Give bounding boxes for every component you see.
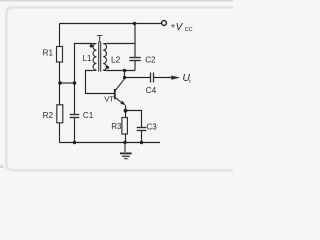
- wire: C1 to bottom rail: [74, 118, 76, 143]
- svg-text:L1: L1: [83, 54, 92, 63]
- wire: R3 to bottom rail: [125, 134, 127, 143]
- capacitor C4: [151, 73, 154, 83]
- capacitor C1: [70, 115, 80, 118]
- L2 phase dot: [106, 66, 109, 69]
- wire: bottom common rail: [60, 142, 161, 144]
- wire: tank bottom to collector node: [124, 71, 126, 78]
- capacitor C3: [137, 128, 147, 131]
- inductor L1 (winding): [93, 44, 96, 71]
- node: bias C1 junction: [73, 81, 77, 85]
- svg-text:C4: C4: [146, 86, 157, 95]
- node: rail at R3/ground: [123, 141, 126, 144]
- wire: R2 to bottom rail: [59, 123, 61, 143]
- resistor R1: [57, 47, 63, 63]
- output arrow: [171, 76, 180, 80]
- resistor R3: [122, 118, 128, 135]
- capacitor C2: [129, 58, 140, 61]
- wire: L1 bottom to VT base: [86, 71, 115, 94]
- svg-text:R3: R3: [111, 122, 122, 131]
- svg-text:VT: VT: [104, 94, 114, 103]
- svg-text:R2: R2: [43, 111, 54, 120]
- resistor R2: [57, 105, 63, 123]
- node: bias divider junction: [58, 81, 62, 85]
- svg-text:C2: C2: [145, 55, 156, 64]
- node: rail at C3: [140, 141, 143, 144]
- node: tank bottom junction: [123, 69, 126, 72]
- svg-text:L2: L2: [111, 54, 121, 64]
- svg-text:T: T: [97, 34, 103, 45]
- transformer core: [99, 42, 101, 72]
- node: rail junction above C2: [133, 22, 136, 25]
- wire: bias node horizontal: [60, 82, 75, 84]
- wire: bias node to C1: [74, 83, 76, 115]
- wire: C2 bottom stub: [134, 61, 136, 71]
- inductor L2 (winding): [103, 44, 106, 71]
- wire: +Vcc top rail: [60, 23, 162, 25]
- wire: rail to R1: [59, 24, 61, 48]
- wire: emitter node to C3: [126, 111, 142, 128]
- svg-text:CC: CC: [185, 27, 193, 33]
- terminal +Vcc: [162, 21, 167, 26]
- svg-text:г: г: [189, 79, 191, 85]
- wire: bias node to R2: [59, 83, 61, 105]
- node: emitter junction: [124, 109, 128, 113]
- wire: collector node to C4: [125, 77, 151, 79]
- ground: [120, 143, 132, 159]
- wire: L2 top to rail (via C2 top): [106, 43, 135, 45]
- wire: bias node up to L1 top: [75, 44, 93, 84]
- wire: emitter down to node: [125, 105, 127, 118]
- wire: tank bottom (L2 to C2): [106, 70, 135, 72]
- transistor VT: [115, 79, 124, 104]
- svg-text:C1: C1: [83, 111, 94, 120]
- svg-text:R1: R1: [43, 48, 54, 57]
- L1 phase dot: [90, 44, 93, 47]
- node: collector junction: [123, 76, 126, 79]
- wire: R1 to base bias node: [59, 62, 61, 83]
- wire: C4 to output arrow: [154, 77, 172, 79]
- wire: C3 to bottom rail: [141, 131, 143, 143]
- node: rail at C1: [73, 141, 76, 144]
- svg-text:C3: C3: [146, 122, 157, 131]
